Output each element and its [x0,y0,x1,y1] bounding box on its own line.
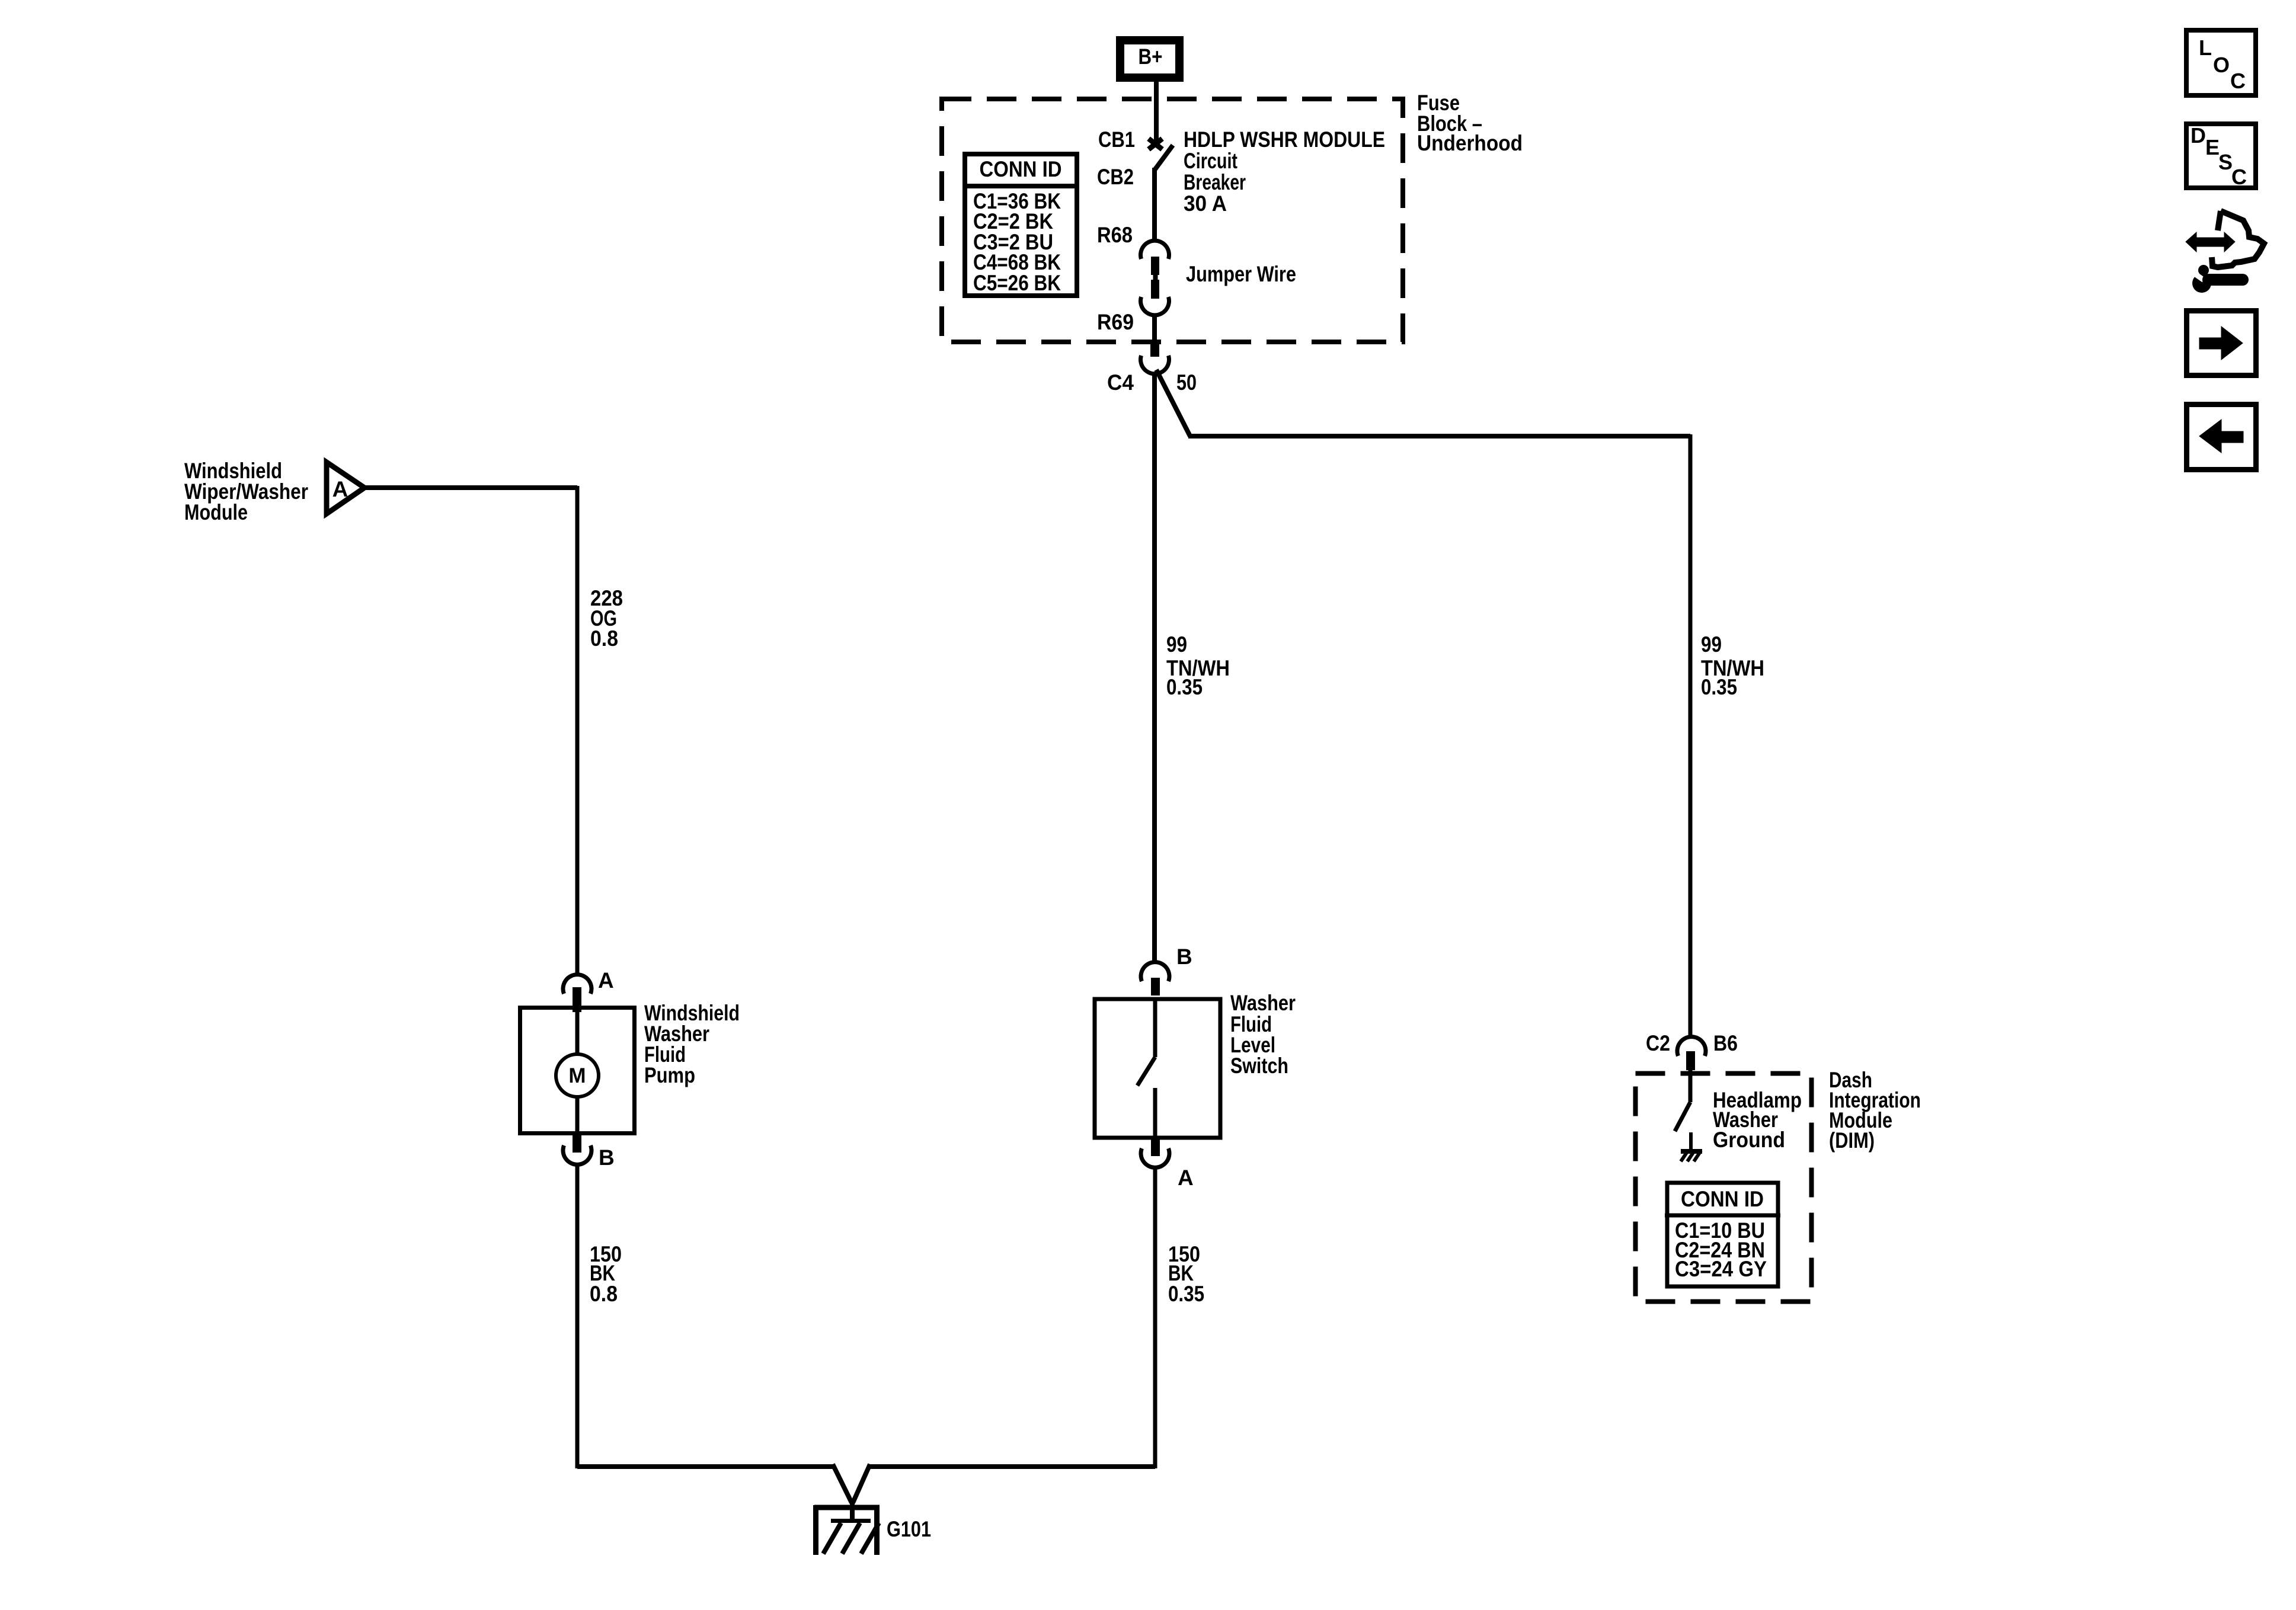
svg-text:A: A [598,968,614,993]
icon forward arrow box [2187,311,2256,376]
wire B+ to circuit breaker CB1 [1154,82,1159,143]
wire ground run left [577,1464,833,1469]
svg-text:CONN ID: CONN ID [1681,1187,1764,1211]
svg-text:CB1: CB1 [1098,127,1135,152]
connector table CONN ID (DIM) [1665,1183,1780,1286]
wire pump pin B to ground [575,1165,580,1468]
svg-text:G101: G101 [887,1517,931,1541]
svg-text:CB2: CB2 [1097,165,1134,189]
svg-text:Pump: Pump [644,1063,695,1087]
svg-text:Circuit: Circuit [1184,149,1237,173]
headlamp washer ground switch blade [1675,1070,1691,1150]
icon DESC box [2186,123,2256,189]
svg-text:50: 50 [1176,370,1197,395]
pump pin A male terminal [573,987,581,1012]
svg-text:C2: C2 [1646,1031,1670,1055]
svg-text:0.8: 0.8 [590,626,618,651]
connector table CONN ID (fuse block) [962,154,1079,296]
svg-text:Washer: Washer [1230,991,1296,1015]
svg-text:A: A [332,477,348,501]
wire down to DIM connector C2 [1689,434,1693,1038]
DIM connector C2 arc [1677,1037,1706,1056]
pump connector pin A arc [563,975,591,994]
svg-text:C4: C4 [1107,370,1134,395]
svg-text:B+: B+ [1139,44,1163,69]
wire splice 50 diagonal branch [1156,370,1190,436]
value label HDLP WSHR MODULE Circuit Breaker 30 A [1184,127,1385,216]
svg-text:C3=24 GY: C3=24 GY [1675,1257,1767,1281]
svg-text:A: A [1178,1166,1194,1190]
svg-text:C5=26 BK: C5=26 BK [973,271,1061,295]
svg-text:99: 99 [1701,632,1722,657]
wire label 150 BK 0.35 [1168,1242,1204,1306]
svg-text:L: L [2199,36,2212,60]
label Headlamp Washer Ground [1713,1088,1802,1152]
power symbol B+ [1120,40,1179,78]
dash integration module dashed box [1636,1074,1812,1302]
svg-text:O: O [2213,53,2230,77]
wire CB2 to R68 [1152,168,1157,242]
svg-text:D: D [2191,123,2206,148]
wire horizontal run to DIM branch [1188,434,1690,438]
svg-text:R68: R68 [1097,223,1133,247]
svg-text:B6: B6 [1713,1031,1738,1055]
wire label 150 BK 0.8 [590,1242,622,1306]
svg-text:Switch: Switch [1230,1054,1288,1078]
wire label 99 TN/WH 0.35 (switch branch) [1166,632,1230,699]
switch pin A male terminal [1151,1140,1160,1156]
label Dash Integration Module (DIM) [1829,1068,1921,1153]
wire C4 to washer fluid level switch [1152,372,1157,964]
switch connector pin B arc [1141,962,1169,981]
svg-text:30 A: 30 A [1184,191,1227,216]
icon wrench and arrows [2186,211,2264,293]
svg-text:0.35: 0.35 [1701,675,1737,699]
DIM pin male terminal [1686,1051,1695,1070]
svg-text:C: C [2230,69,2246,93]
wire R69 to C4 [1152,315,1157,342]
connector triangle A (Windshield Wiper/Washer Module) [327,462,364,514]
pump connector pin B arc [563,1145,591,1164]
wire triangle A to pump branch [366,485,577,490]
svg-text:Jumper Wire: Jumper Wire [1186,262,1296,286]
washer fluid level switch box [1095,999,1220,1138]
svg-text:C: C [2231,165,2247,189]
wire label 99 TN/WH 0.35 (DIM branch) [1701,632,1764,699]
label Windshield Washer Fluid Pump [644,1001,740,1087]
label Windshield Wiper/Washer Module [184,459,308,524]
svg-text:CONN ID: CONN ID [980,157,1062,181]
svg-text:B: B [1176,945,1192,969]
svg-text:Underhood: Underhood [1417,131,1523,155]
label Washer Fluid Level Switch [1230,991,1296,1078]
svg-text:B: B [599,1145,615,1170]
svg-text:M: M [568,1064,586,1087]
circuit breaker CB (X contact and blade) [1149,139,1173,170]
svg-text:99: 99 [1166,632,1187,657]
wire ground run right [870,1464,1155,1469]
pump pin B male terminal [573,1135,581,1153]
ground symbol (headlamp washer ground) [1681,1151,1702,1161]
svg-text:0.35: 0.35 [1166,675,1203,699]
wire label 228 OG 0.8 [590,586,623,651]
svg-text:0.8: 0.8 [590,1282,618,1306]
svg-text:R69: R69 [1097,310,1134,334]
connector C4 male terminal [1150,341,1159,357]
wire stub into ground [850,1499,855,1521]
switch connector pin A arc [1141,1148,1169,1167]
wire switch pin A to ground [1153,1167,1157,1468]
svg-text:E: E [2205,135,2220,159]
ground junction Y left [833,1464,852,1503]
svg-text:(DIM): (DIM) [1829,1128,1875,1153]
ground symbol G101 [814,1505,880,1555]
jumper wire terminals [1151,257,1159,299]
fuse block underhood dashed box [942,99,1403,342]
svg-text:S: S [2218,150,2233,174]
svg-text:0.35: 0.35 [1168,1282,1204,1306]
svg-text:HDLP WSHR MODULE: HDLP WSHR MODULE [1184,127,1385,152]
ground junction Y right [853,1464,870,1503]
wire down to pump pin A [575,486,580,975]
connector R68 (female arc) [1141,241,1169,259]
label Fuse Block - Underhood [1417,91,1523,155]
icon LOC box [2186,30,2256,95]
svg-text:Breaker: Breaker [1184,170,1246,194]
svg-text:Ground: Ground [1713,1128,1785,1152]
svg-text:Module: Module [184,500,248,524]
connector R69 (female arc) [1141,297,1169,315]
windshield washer fluid pump box [520,1007,635,1134]
connector C4 female arc [1141,356,1169,374]
switch pin B male terminal [1151,978,1160,996]
icon back arrow box [2187,405,2256,470]
